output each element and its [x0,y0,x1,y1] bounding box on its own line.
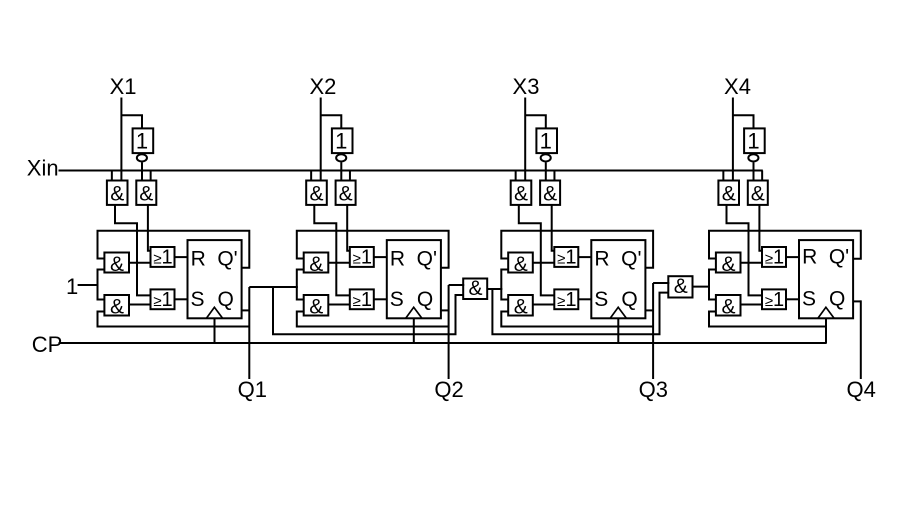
wire X2 branch to inverter [321,115,342,128]
inverter bubble stage 2 [336,154,346,161]
wire lower OR to S input [786,298,800,300]
OR gate lower stage 2 [350,289,374,309]
svg-text:X2: X2 [309,74,336,99]
wire Xin tap right stage 1 [150,171,152,181]
wire Q1 to stage2 enable [249,286,297,288]
AND gate middle-upper stage 1 [104,253,129,273]
wire CP bus [59,342,827,344]
wire Q' feedback loop stage 4 [709,231,861,259]
wire X2 vertical [320,98,322,181]
svg-text:Q3: Q3 [639,377,668,402]
wire lower AND to lower OR [328,304,351,306]
svg-text:&: & [309,295,323,318]
svg-text:X3: X3 [513,74,540,99]
AND gate middle-lower stage 2 [304,295,329,316]
svg-text:Q: Q [417,288,433,311]
svg-text:&: & [110,182,124,205]
AND gate middle-upper stage 2 [304,253,329,273]
svg-text:Q2: Q2 [434,377,463,402]
svg-text:&: & [721,253,735,276]
OR gate upper stage 4 [762,247,786,267]
svg-text:Q: Q [218,288,234,311]
wire Q' feedback loop stage 3 [501,231,653,268]
wire inverter output down [141,162,143,180]
wire X4 vertical [732,98,734,181]
wire inverter box to bubble [340,153,342,154]
wire Xin tap left stage 2 [310,171,312,181]
OR gate upper stage 3 [554,247,578,267]
AND gate top-right stage 3 [540,181,560,205]
wire Q feedback bottom edge stage 3 [501,312,653,327]
wire lower OR to S input [374,298,388,300]
svg-text:S: S [190,288,204,311]
svg-text:Q': Q' [621,248,641,271]
wire AND23 output to stage3 enable [487,288,502,290]
wire upper OR to R input [786,256,800,258]
wire upper AND to upper OR [741,262,764,264]
wire Q feedback bottom edge stage 4 [709,312,826,327]
svg-text:1: 1 [747,129,759,154]
wire inverter output down [753,162,755,180]
svg-text:X4: X4 [724,74,751,99]
svg-text:&: & [514,253,528,276]
wire top-left AND out to lower OR [727,205,764,296]
wire clock to CP stage 3 [617,318,619,343]
svg-text:&: & [543,182,557,205]
wire X4 branch to inverter [733,115,754,128]
OR gate upper stage 2 [350,247,374,267]
wire inverter box to bubble [545,153,547,154]
svg-text:≥1: ≥1 [557,289,576,311]
wire upper AND to upper OR [533,262,556,264]
svg-text:≥1: ≥1 [153,289,172,311]
AND gate top-right stage 1 [136,181,156,205]
flip-flop U3 (RS latch) [591,240,645,318]
wire X3 branch to inverter [525,115,546,128]
svg-text:Q1: Q1 [238,377,267,402]
wire top-left AND out to lower OR [314,205,351,296]
svg-text:R: R [191,248,206,271]
wire AND34 output to stage4 enable [693,286,711,288]
svg-text:≥1: ≥1 [153,247,172,269]
clock triangle stage 4 [818,307,834,318]
inverter bubble stage 4 [748,154,758,161]
wire inverter output down [545,162,547,180]
wire constant-1 to stage1 enable [78,284,99,286]
wire Q output pin stage 2 [441,309,449,311]
inverter bubble stage 3 [541,154,551,161]
flip-flop U2 (RS latch) [387,240,441,318]
svg-text:1: 1 [540,129,552,154]
svg-text:Q: Q [621,288,637,311]
AND gate top-right stage 4 [748,181,768,205]
wire inverter box to bubble [141,153,143,154]
wire Q4 output drop [860,300,862,379]
wire Q feedback bottom edge stage 2 [297,312,449,327]
svg-text:1: 1 [66,274,78,299]
AND gate middle-upper stage 4 [716,253,741,273]
wire Q1 output drop [248,287,250,379]
svg-text:≥1: ≥1 [353,247,372,269]
wire Xin tap left stage 1 [111,171,113,181]
AND gate top-left stage 1 [107,181,128,205]
wire Q' feedback loop stage 2 [297,231,449,268]
flip-flop U4 (RS latch) [799,240,853,318]
AND gate top-left stage 2 [306,181,327,205]
svg-text:&: & [751,182,765,205]
wire Q2 to AND23 [449,284,465,286]
wire top-right AND out to upper OR [347,205,351,251]
wire inverter output down [340,162,342,180]
svg-text:CP: CP [32,332,63,357]
wire Xin tap right stage 4 [761,171,763,181]
svg-text:≥1: ≥1 [765,247,784,269]
svg-text:&: & [110,253,124,276]
wire lower AND to lower OR [741,304,764,306]
inverter box stage 2 [332,128,353,153]
wire AND23 lane to AND34 [492,289,669,334]
wire top-right AND out to upper OR [759,205,763,251]
wire X1 branch to inverter [121,115,142,128]
AND gate middle-lower stage 1 [104,295,129,316]
svg-text:Q: Q [829,287,845,310]
AND gate middle-upper stage 3 [508,253,533,273]
wire Q output pin stage 4 [853,300,861,302]
wire Q' feedback loop stage 1 [98,231,250,268]
wire Xin tap left stage 4 [722,171,724,181]
wire Xin tap right stage 2 [349,171,351,181]
svg-text:Q4: Q4 [847,377,876,402]
wire lower OR to S input [175,298,189,300]
wire enable segment stage 3 [501,270,509,300]
wire clock to CP stage 1 [214,318,216,343]
wire enable segment stage 1 [98,270,106,300]
wire upper OR to R input [578,256,592,258]
svg-text:Q': Q' [829,246,849,269]
svg-text:&: & [139,182,153,205]
svg-text:Q': Q' [417,248,437,271]
svg-text:&: & [339,182,353,205]
clock triangle stage 3 [610,307,626,318]
AND gate top-right stage 2 [336,181,356,205]
svg-text:R: R [802,246,817,269]
wire top-left AND out to lower OR [115,205,152,296]
AND gate top-left stage 3 [511,181,532,205]
wire lower AND to lower OR [129,304,152,306]
AND gate carry23 [463,279,487,300]
wire top-left AND out to lower OR [519,205,556,296]
clock triangle stage 2 [406,307,422,318]
svg-text:&: & [722,182,736,205]
svg-text:&: & [721,295,735,318]
wire lower AND to lower OR [533,304,556,306]
wire upper AND to upper OR [129,262,152,264]
svg-text:&: & [514,182,528,205]
wire top-right AND out to upper OR [148,205,152,251]
svg-text:X1: X1 [110,74,137,99]
svg-text:&: & [468,277,482,300]
wire top-right AND out to upper OR [552,205,556,251]
wire Xin tap right stage 3 [553,171,555,181]
wire Q1 lane to AND23 [273,287,464,334]
wire upper AND to upper OR [328,262,351,264]
wire Q feedback bottom edge stage 1 [98,312,250,327]
inverter box stage 4 [744,128,765,153]
svg-text:&: & [309,253,323,276]
svg-text:S: S [594,288,608,311]
svg-text:&: & [309,182,323,205]
wire enable segment stage 2 [297,270,305,300]
svg-text:&: & [514,295,528,318]
wire Xin tap left stage 3 [515,171,517,181]
inverter box stage 3 [536,128,557,153]
svg-text:Xin: Xin [27,156,59,181]
svg-text:1: 1 [335,129,347,154]
svg-text:≥1: ≥1 [353,289,372,311]
inverter box stage 1 [133,128,154,153]
svg-text:S: S [390,288,404,311]
svg-text:&: & [110,295,124,318]
clock triangle stage 1 [206,307,222,318]
wire lower OR to S input [578,298,592,300]
wire Q3 output drop [652,283,654,379]
OR gate upper stage 1 [151,247,175,267]
wire X1 vertical [120,98,122,181]
wire Q output pin stage 1 [242,309,250,311]
AND gate middle-lower stage 3 [508,295,533,316]
AND gate carry34 [668,276,692,297]
OR gate lower stage 4 [762,289,786,309]
wire inverter box to bubble [753,153,755,154]
svg-text:S: S [802,287,816,310]
svg-text:R: R [594,248,609,271]
wire enable segment stage 4 [709,270,717,300]
OR gate lower stage 1 [151,289,175,309]
AND gate middle-lower stage 4 [716,295,741,316]
svg-text:Q': Q' [217,248,237,271]
wire Q2 output drop [448,285,450,379]
svg-text:1: 1 [136,129,148,154]
OR gate lower stage 3 [554,289,578,309]
wire Q3 to AND34 [653,282,669,284]
svg-text:R: R [390,248,405,271]
inverter bubble stage 1 [137,154,147,161]
wire X3 vertical [524,98,526,181]
wire Q output pin stage 3 [645,309,653,311]
wire clock to CP stage 4 [825,318,827,343]
svg-text:≥1: ≥1 [765,289,784,311]
wire upper OR to R input [175,256,189,258]
wire Xin bus [59,170,763,172]
wire upper OR to R input [374,256,388,258]
wire clock to CP stage 2 [413,318,415,343]
svg-text:≥1: ≥1 [557,247,576,269]
svg-text:&: & [674,275,688,298]
flip-flop U1 (RS latch) [188,240,242,318]
AND gate top-left stage 4 [718,181,739,205]
